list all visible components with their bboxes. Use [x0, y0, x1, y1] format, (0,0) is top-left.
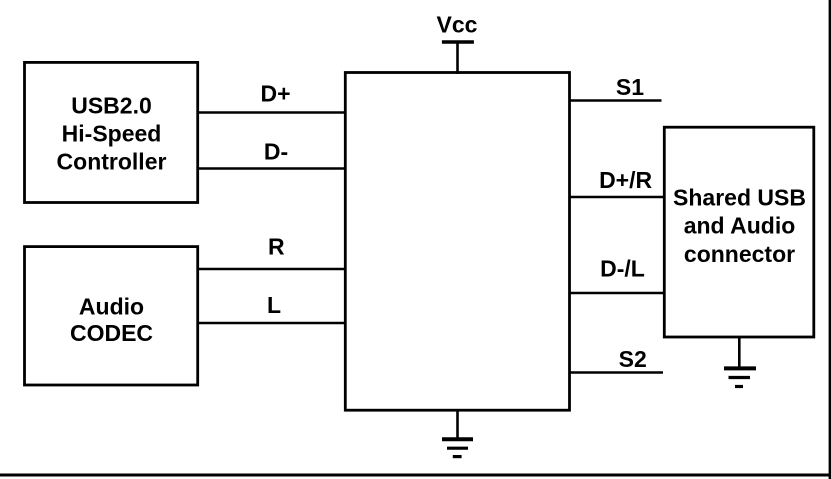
svg-text:Hi-Speed: Hi-Speed	[62, 121, 162, 147]
svg-text:D+/R: D+/R	[599, 167, 652, 193]
svg-text:S2: S2	[619, 346, 647, 372]
svg-text:R: R	[268, 233, 285, 259]
svg-text:connector: connector	[684, 241, 795, 267]
svg-text:D-/L: D-/L	[600, 256, 645, 282]
svg-text:Audio: Audio	[79, 294, 144, 320]
svg-text:USB2.0: USB2.0	[71, 93, 152, 119]
svg-text:L: L	[267, 292, 281, 318]
svg-text:D-: D-	[264, 138, 288, 164]
svg-text:Shared USB: Shared USB	[673, 185, 806, 211]
svg-text:D+: D+	[260, 81, 290, 107]
svg-text:CODEC: CODEC	[70, 320, 153, 346]
svg-text:S1: S1	[616, 74, 644, 100]
svg-text:Controller: Controller	[57, 148, 167, 174]
svg-text:and Audio: and Audio	[684, 213, 796, 239]
svg-text:Vcc: Vcc	[437, 12, 478, 38]
